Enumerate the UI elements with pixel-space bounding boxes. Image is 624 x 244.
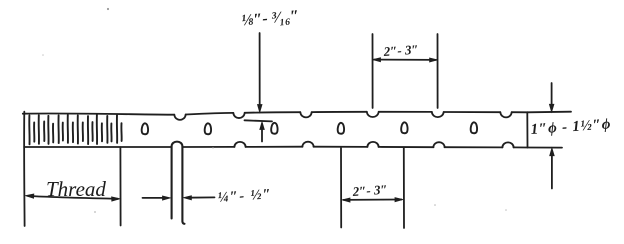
bottom notch 5 bbox=[502, 142, 513, 147]
svg-text:⅛″- ³⁄₁₆″: ⅛″- ³⁄₁₆″ bbox=[241, 8, 300, 30]
svg-text:Thread: Thread bbox=[46, 177, 106, 201]
hole 3 bbox=[271, 123, 277, 134]
bar top edge (segments between top notches) bbox=[23, 113, 175, 114]
hole 6 bbox=[471, 122, 477, 133]
bottom edge extension line (right) bbox=[528, 147, 563, 149]
hole 4 bbox=[338, 123, 344, 134]
top notch 5 bbox=[432, 112, 444, 117]
bottom notch 3 bbox=[367, 142, 378, 147]
arrowhead left bbox=[373, 58, 381, 62]
quarter-half dim: right arrow line bbox=[187, 196, 215, 198]
hole 1 bbox=[142, 123, 148, 134]
arrowhead left bbox=[26, 194, 34, 198]
top notch 3 bbox=[300, 112, 311, 117]
top notch 2 bbox=[233, 113, 244, 118]
svg-text:2″- 3″: 2″- 3″ bbox=[351, 182, 388, 199]
top 2-3 dim: left extension line bbox=[372, 34, 374, 108]
top 2-3 dimension line bbox=[374, 59, 436, 61]
bar right end cap bbox=[526, 112, 528, 147]
top 2-3 dim: right extension line bbox=[437, 34, 439, 108]
top notch 4 bbox=[367, 112, 379, 117]
Thread dimension line bbox=[28, 196, 118, 199]
pin through bar (rounded cap, vertical sides) bbox=[172, 142, 185, 224]
bottom notch 2 bbox=[302, 142, 313, 147]
bottom 2-3 dim: left extension line bbox=[340, 148, 342, 228]
bar left end cap and Thread left extension line bbox=[23, 112, 25, 226]
arrowhead down at bar top bbox=[258, 105, 263, 113]
right dia dim: up arrow bbox=[551, 151, 553, 189]
bottom notch 1 bbox=[234, 142, 245, 147]
svg-text:1″ϕ - 1½″ϕ: 1″ϕ - 1½″ϕ bbox=[530, 116, 612, 138]
quarter-half dim: left arrow line bbox=[143, 197, 168, 199]
hole 2 bbox=[205, 123, 211, 134]
arrowhead right bbox=[395, 198, 403, 202]
thread hatching bbox=[29, 115, 121, 145]
arrowhead left bbox=[342, 198, 350, 202]
dimension leader: 1/8-3/16 down arrow bbox=[259, 33, 261, 109]
up arrow to notch depth line bbox=[261, 124, 263, 142]
svg-text:2″- 3″: 2″- 3″ bbox=[382, 42, 419, 59]
arrowhead up bbox=[260, 122, 265, 130]
bottom 2-3 dimension line bbox=[344, 199, 402, 201]
arrowhead right bbox=[112, 197, 120, 201]
scan speckles bbox=[42, 8, 507, 213]
arrowhead right bbox=[430, 58, 438, 62]
bottom notch 4 bbox=[433, 142, 444, 147]
bar bottom edge (segments between bottom notches and pin gap) bbox=[24, 146, 171, 148]
svg-text:¼″- ½″: ¼″- ½″ bbox=[217, 186, 273, 206]
right dia dim: down arrow bbox=[551, 83, 553, 109]
top notch 6 bbox=[500, 112, 511, 117]
notch depth tick line bbox=[245, 120, 273, 121]
top notch 1 bbox=[174, 115, 185, 120]
bottom 2-3 dim: right extension line bbox=[403, 148, 405, 228]
top edge extension line (right) bbox=[527, 111, 571, 114]
Thread dim: right extension line bbox=[119, 147, 121, 225]
hole 5 bbox=[401, 122, 407, 133]
